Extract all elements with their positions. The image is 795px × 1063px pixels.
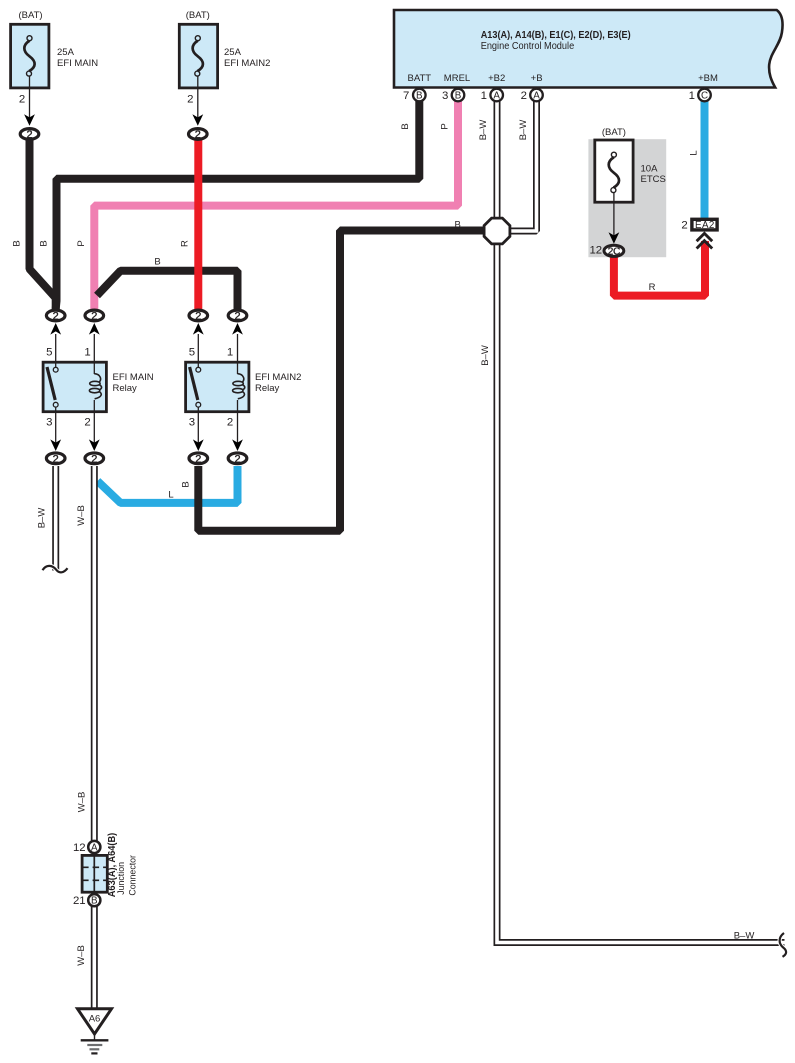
svg-text:B: B [416, 91, 423, 102]
svg-text:B: B [400, 123, 411, 129]
svg-text:2: 2 [91, 453, 97, 465]
svg-text:2: 2 [195, 311, 201, 323]
svg-text:L: L [168, 490, 173, 501]
svg-text:R: R [649, 282, 656, 293]
svg-text:EFI MAIN: EFI MAIN [113, 372, 154, 383]
svg-text:2: 2 [53, 311, 59, 323]
svg-text:B: B [455, 91, 462, 102]
svg-text:P: P [440, 123, 451, 129]
svg-text:BATT: BATT [408, 73, 432, 84]
svg-text:B: B [39, 240, 50, 246]
svg-text:W–B: W–B [77, 792, 88, 813]
svg-text:B–W: B–W [480, 345, 491, 366]
svg-text:12: 12 [589, 245, 602, 257]
svg-text:2: 2 [84, 417, 90, 429]
svg-text:A: A [533, 91, 540, 102]
svg-text:25A: 25A [224, 47, 242, 58]
svg-text:A: A [493, 91, 500, 102]
svg-text:2: 2 [195, 129, 201, 141]
svg-text:5: 5 [46, 347, 52, 359]
svg-text:2: 2 [227, 417, 233, 429]
svg-text:B–W: B–W [734, 931, 755, 942]
svg-text:B–W: B–W [518, 120, 529, 141]
svg-text:EFI MAIN: EFI MAIN [57, 58, 98, 69]
svg-text:B–W: B–W [478, 120, 489, 141]
svg-text:3: 3 [442, 90, 448, 102]
svg-text:1: 1 [84, 347, 90, 359]
svg-text:EA2: EA2 [695, 220, 715, 231]
svg-text:2: 2 [19, 93, 25, 105]
svg-text:2: 2 [91, 311, 97, 323]
svg-text:L: L [688, 150, 699, 155]
svg-text:B: B [12, 240, 23, 246]
svg-text:(BAT): (BAT) [18, 10, 42, 21]
svg-text:2: 2 [234, 311, 240, 323]
svg-text:2: 2 [26, 129, 32, 141]
svg-text:3: 3 [46, 417, 52, 429]
svg-text:Relay: Relay [113, 383, 138, 394]
svg-text:MREL: MREL [444, 73, 470, 84]
svg-text:W–B: W–B [76, 945, 87, 966]
svg-text:2C: 2C [608, 247, 621, 258]
svg-text:A: A [91, 842, 98, 853]
svg-text:C: C [701, 91, 708, 102]
svg-text:1: 1 [481, 90, 487, 102]
svg-text:ETCS: ETCS [641, 174, 666, 185]
svg-text:2: 2 [195, 453, 201, 465]
svg-text:EFI MAIN2: EFI MAIN2 [255, 372, 301, 383]
svg-text:3: 3 [189, 417, 195, 429]
svg-text:21: 21 [73, 895, 86, 907]
svg-text:(BAT): (BAT) [602, 127, 626, 138]
svg-text:2: 2 [681, 220, 687, 232]
svg-text:+B: +B [531, 73, 543, 84]
svg-text:A6: A6 [89, 1014, 101, 1025]
svg-text:R: R [180, 240, 191, 247]
svg-text:10A: 10A [641, 164, 659, 175]
svg-text:+B2: +B2 [488, 73, 505, 84]
svg-text:B: B [91, 896, 98, 907]
svg-text:1: 1 [227, 347, 233, 359]
svg-text:7: 7 [403, 90, 409, 102]
svg-text:Junction: Junction [116, 862, 126, 895]
svg-text:5: 5 [189, 347, 195, 359]
svg-text:2: 2 [53, 453, 59, 465]
svg-text:Relay: Relay [255, 383, 280, 394]
svg-text:B: B [181, 481, 192, 487]
svg-text:25A: 25A [57, 47, 75, 58]
svg-text:B: B [455, 220, 461, 231]
svg-text:2: 2 [187, 93, 193, 105]
svg-text:A13(A), A14(B), E1(C), E2(D),: A13(A), A14(B), E1(C), E2(D), E3(E) [481, 30, 631, 41]
svg-text:W–B: W–B [76, 505, 87, 526]
svg-text:Engine Control Module: Engine Control Module [481, 41, 575, 52]
svg-text:+BM: +BM [698, 73, 718, 84]
svg-text:2: 2 [234, 453, 240, 465]
svg-text:Connector: Connector [128, 855, 138, 896]
svg-text:B: B [154, 256, 160, 267]
svg-text:2: 2 [521, 90, 527, 102]
svg-text:1: 1 [689, 90, 695, 102]
svg-text:EFI MAIN2: EFI MAIN2 [224, 58, 270, 69]
svg-text:B–W: B–W [36, 508, 47, 529]
svg-text:P: P [76, 240, 87, 246]
svg-text:(BAT): (BAT) [186, 10, 210, 21]
svg-text:12: 12 [73, 842, 86, 854]
